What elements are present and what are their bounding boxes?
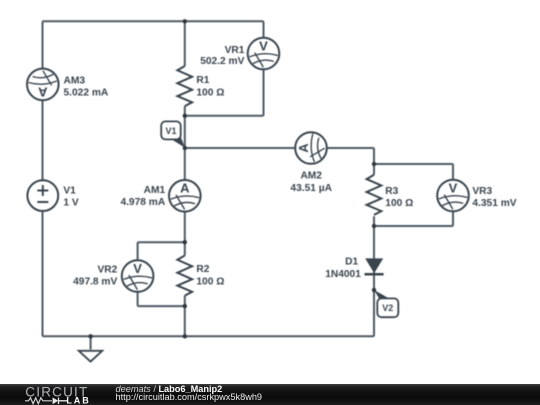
node R1 bottom junction	[183, 114, 187, 118]
svg-text:A: A	[37, 85, 47, 100]
node bottom-rail junction	[183, 334, 187, 338]
svg-text:R2: R2	[196, 264, 209, 275]
svg-text:AM1: AM1	[144, 185, 166, 196]
svg-text:VR2: VR2	[97, 265, 117, 276]
resistor R2	[177, 256, 192, 296]
resistor R3	[367, 175, 382, 215]
wire node V1 to AM2 to R3	[185, 148, 374, 164]
wire left rail	[42, 21, 44, 336]
node R3 bottom junction	[372, 224, 376, 228]
svg-text:V1: V1	[165, 126, 176, 136]
voltmeter VR1	[248, 38, 280, 70]
svg-text:100 Ω: 100 Ω	[385, 198, 413, 209]
svg-text:A: A	[296, 143, 311, 153]
svg-text:D1: D1	[345, 256, 358, 267]
wire VR1 loop	[185, 21, 264, 116]
svg-text:1N4001: 1N4001	[325, 269, 361, 280]
node R2 top junction	[183, 240, 187, 244]
svg-text:4.351 mV: 4.351 mV	[472, 198, 516, 209]
diode D1	[365, 258, 384, 274]
svg-text:R1: R1	[196, 75, 209, 86]
wire D1 branch down to bottom rail	[373, 226, 375, 336]
svg-text:V1: V1	[63, 186, 76, 197]
svg-text:497.8 mV: 497.8 mV	[73, 277, 117, 288]
voltmeter VR2	[122, 260, 154, 292]
svg-text:LAB: LAB	[66, 396, 90, 405]
footer bar	[0, 384, 540, 405]
svg-text:A: A	[180, 181, 190, 196]
svg-text:100 Ω: 100 Ω	[196, 277, 224, 288]
node V2 flag	[374, 290, 398, 317]
svg-text:AM2: AM2	[300, 171, 322, 182]
ammeter AM1	[169, 180, 201, 212]
ground	[79, 351, 103, 362]
svg-text:V: V	[259, 38, 268, 53]
node V1 junction	[183, 146, 187, 150]
svg-text:V: V	[133, 261, 142, 276]
svg-text:502.2 mV: 502.2 mV	[200, 56, 244, 67]
svg-text:R3: R3	[385, 186, 398, 197]
node top-rail/R1 junction	[183, 19, 187, 23]
wire mid vertical branch	[184, 21, 186, 336]
svg-text:V2: V2	[382, 303, 393, 313]
wire R3 leads	[373, 164, 375, 226]
wire VR2 loop	[138, 242, 185, 306]
ammeter AM3	[27, 69, 59, 101]
svg-text:43.51 µA: 43.51 µA	[290, 183, 332, 194]
svg-text:5.022 mA: 5.022 mA	[64, 87, 109, 98]
svg-text:VR1: VR1	[225, 45, 245, 56]
wire ground stem	[90, 336, 92, 349]
svg-text:4.978 mA: 4.978 mA	[120, 197, 165, 208]
CircuitLab logo	[20, 381, 115, 405]
wire bottom rail	[43, 335, 375, 337]
credit text	[116, 385, 263, 402]
node V2 junction	[372, 288, 376, 292]
voltage source V1	[27, 180, 58, 211]
ammeter AM2	[295, 132, 327, 164]
svg-text:100 Ω: 100 Ω	[196, 88, 224, 99]
svg-text:VR3: VR3	[472, 186, 492, 197]
wire VR3 loop	[374, 164, 453, 226]
node V1 flag	[161, 121, 185, 147]
svg-text:AM3: AM3	[64, 76, 86, 87]
node R2 bottom junction	[183, 304, 187, 308]
svg-text:V: V	[449, 180, 458, 195]
voltmeter VR3	[437, 180, 469, 212]
svg-text:1 V: 1 V	[63, 197, 78, 208]
node ground junction	[88, 334, 92, 338]
wire top rail	[43, 20, 264, 22]
node R3 top junction	[372, 162, 376, 166]
resistor R1	[177, 66, 192, 106]
